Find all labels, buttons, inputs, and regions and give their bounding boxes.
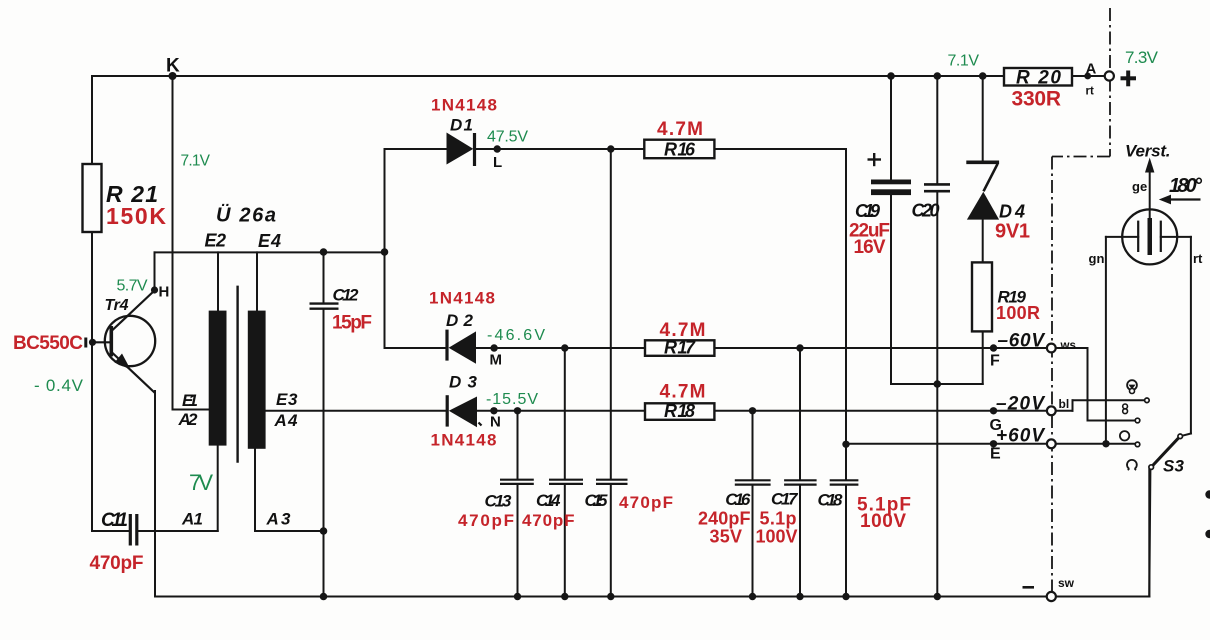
capacitor C19 plus sign <box>868 153 882 166</box>
svg-text:150K: 150K <box>106 203 166 229</box>
wire E1 A2 tap <box>173 409 209 411</box>
svg-text:rt: rt <box>1193 251 1203 266</box>
svg-text:E2: E2 <box>205 231 227 251</box>
transformer winding E3 A4 right bar <box>248 311 266 449</box>
ground bus junction <box>934 380 942 388</box>
wire C20 bottom through ground bus <box>936 193 938 597</box>
wire R21 to C11 <box>91 232 93 531</box>
switch contact 1 <box>1145 398 1150 403</box>
wire tube gn lead <box>1106 236 1138 238</box>
wire R19 to ground bus <box>982 331 984 384</box>
right edge dot 1 <box>1205 490 1210 498</box>
capacitor C16 plates <box>735 480 771 484</box>
resistor R16 <box>644 140 714 159</box>
wire C13 bottom <box>517 485 519 597</box>
svg-text:240pF: 240pF <box>698 509 751 529</box>
capacitor C11 plates <box>130 514 137 546</box>
wire C13 top <box>517 411 519 479</box>
svg-text:F: F <box>990 353 1000 370</box>
wire R16 output vertical to E row <box>845 149 847 444</box>
rail C13 junction <box>514 593 521 600</box>
svg-text:E: E <box>990 446 1001 463</box>
transformer winding E1 A2 left bar <box>209 311 227 446</box>
svg-text:BC550C: BC550C <box>13 333 83 354</box>
wire bl to contact1 <box>1073 399 1145 401</box>
svg-text:7V: 7V <box>189 470 213 495</box>
node M dot <box>490 344 497 351</box>
diode D2 <box>445 330 448 361</box>
svg-text:A1: A1 <box>181 510 203 529</box>
capacitor C12 plates <box>310 304 339 309</box>
icon phono small circle <box>1130 389 1135 394</box>
wire R17 to F <box>714 347 1046 349</box>
terminal +60V circle <box>1047 439 1056 448</box>
rail C17 junction <box>796 593 803 600</box>
node E dot <box>990 440 997 447</box>
wire E row <box>846 443 1047 445</box>
D4 top rail junction <box>979 72 987 80</box>
svg-text:15pF: 15pF <box>332 313 372 334</box>
svg-text:-15.5V: -15.5V <box>486 391 538 408</box>
svg-text:100R: 100R <box>996 303 1040 323</box>
svg-text:D 2: D 2 <box>446 311 474 330</box>
svg-text:C16: C16 <box>725 490 751 509</box>
svg-text:Verst.: Verst. <box>1125 142 1171 161</box>
wire H row to bus <box>155 251 385 253</box>
svg-text:R 18: R 18 <box>664 401 695 421</box>
wire C12 bottom vertical <box>323 310 325 597</box>
wire K vertical <box>172 76 174 410</box>
transformer core <box>236 286 238 463</box>
wire C14 bottom <box>564 485 566 597</box>
svg-text:330R: 330R <box>1012 88 1062 111</box>
svg-text:A2: A2 <box>178 410 199 429</box>
icon mic arc <box>1127 460 1137 469</box>
svg-text:470pF: 470pF <box>619 493 673 512</box>
svg-text:100V: 100V <box>756 527 798 547</box>
wire C11 left lead <box>92 530 129 532</box>
svg-text:E4: E4 <box>258 231 281 251</box>
node N dot <box>490 407 497 414</box>
svg-text:A3: A3 <box>266 510 292 529</box>
wire ws to switch <box>1056 347 1088 349</box>
diode D1 <box>447 133 474 165</box>
switch contact 3 <box>1135 442 1140 447</box>
wire E4 lead <box>256 252 258 310</box>
svg-text:C14: C14 <box>536 491 561 510</box>
wire A3 to C12 line <box>255 530 324 532</box>
resistor R21 <box>83 164 102 232</box>
svg-text:100V: 100V <box>860 511 906 532</box>
capacitor C13 plates <box>500 480 534 484</box>
wire top rail right of R20 <box>1072 75 1105 77</box>
wire emitter vertical <box>154 391 156 597</box>
dash-dot boundary top vertical <box>1052 8 1110 592</box>
wire bottom rail right of sw <box>1056 596 1150 598</box>
svg-text:470pF: 470pF <box>522 511 575 530</box>
terminal ws circle <box>1047 344 1056 353</box>
capacitor C14 plates <box>549 480 583 484</box>
wire A1 lead vertical <box>217 446 219 531</box>
wire left drop to R21 <box>91 76 93 164</box>
icon phono wedge <box>1129 385 1136 390</box>
svg-text:A4: A4 <box>274 411 299 430</box>
wire E2 lead <box>217 252 219 310</box>
icon tape circles <box>1123 404 1128 409</box>
svg-text:7.3V: 7.3V <box>1125 48 1159 67</box>
svg-text:C12: C12 <box>333 286 360 305</box>
Verst arrowhead <box>1145 158 1154 173</box>
wire C18 bottom <box>845 486 847 597</box>
wire ground bus <box>891 383 983 385</box>
wire C18 top <box>845 444 847 479</box>
wire E row right of circle <box>1056 443 1136 445</box>
svg-text:R 20: R 20 <box>1016 68 1061 89</box>
node L dot <box>494 145 501 152</box>
C14 junction <box>561 344 568 351</box>
resistor R18 <box>645 403 714 420</box>
switch S3 pivot contact <box>1178 434 1183 439</box>
C18 E row junction <box>842 441 849 448</box>
wire bus to D2 cathode <box>385 347 447 349</box>
wire D3 anode to R18 <box>478 410 646 412</box>
node A dot <box>1084 73 1091 80</box>
dash-dot boundary horizontal <box>1052 156 1110 158</box>
capacitor C17 plates <box>784 480 817 484</box>
terminal A circle <box>1105 71 1114 80</box>
wire C11 right lead to A1 <box>139 530 218 532</box>
svg-text:ge: ge <box>1132 179 1147 194</box>
svg-text:5.7V: 5.7V <box>117 278 148 295</box>
C17 junction <box>796 344 803 351</box>
svg-text:K: K <box>166 56 180 77</box>
minus sign at sw <box>1023 586 1035 589</box>
wire to S3 pivot <box>1182 434 1191 436</box>
wire H to top <box>154 252 156 290</box>
wire C19 top <box>890 76 892 179</box>
180 degree arrowhead <box>1159 195 1171 205</box>
svg-text:C15: C15 <box>585 491 609 510</box>
svg-text:C18: C18 <box>818 491 844 510</box>
svg-text:35V: 35V <box>710 527 743 547</box>
svg-text:1N4148: 1N4148 <box>429 289 495 308</box>
capacitor C18 plates <box>830 480 859 484</box>
C19 top rail junction <box>887 72 895 80</box>
transistor Tr4 collector lead <box>112 291 155 331</box>
node G dot <box>990 407 997 414</box>
resistor R19 <box>972 262 992 331</box>
switch contact 2 <box>1135 418 1140 423</box>
wire rectifier bus <box>384 149 386 348</box>
wire C17 top <box>799 348 801 479</box>
svg-text:C13: C13 <box>485 492 513 511</box>
plus sign at A terminal <box>1121 71 1137 87</box>
svg-text:H: H <box>159 284 170 301</box>
wire tube rt vertical <box>1190 237 1192 434</box>
svg-text:Tr4: Tr4 <box>105 297 129 314</box>
svg-text:C11: C11 <box>101 510 128 531</box>
svg-text:C17: C17 <box>771 490 799 509</box>
wire D4 top lead <box>982 76 984 161</box>
C16 junction <box>749 407 756 414</box>
svg-text:1N4148: 1N4148 <box>431 96 497 115</box>
svg-text:-46.6V: -46.6V <box>487 327 545 344</box>
wire R16 to right vertical <box>714 148 846 150</box>
svg-text:180°: 180° <box>1169 175 1203 197</box>
svg-text:C20: C20 <box>912 201 940 221</box>
rail C15 junction <box>607 593 614 600</box>
terminal sw circle <box>1047 592 1056 601</box>
wire D4 to R19 <box>982 220 984 263</box>
rail C12 junction <box>320 593 328 601</box>
wire C20 top <box>936 76 938 183</box>
wire bottom rail <box>155 596 1047 598</box>
capacitor C15 plates <box>596 480 628 484</box>
svg-text:7.1V: 7.1V <box>948 53 980 70</box>
stray tick near N <box>479 423 482 426</box>
icon phono circle <box>1127 380 1137 390</box>
svg-text:16V: 16V <box>854 237 886 258</box>
wire C14 top <box>564 348 566 479</box>
wire D1 cathode to R16 <box>476 148 645 150</box>
gn lead E row junction <box>1102 440 1109 447</box>
wire C15 top <box>610 149 612 479</box>
node F dot <box>990 344 997 351</box>
svg-text:D3: D3 <box>449 373 478 392</box>
svg-text:E1: E1 <box>182 391 198 410</box>
resistor R20 <box>1004 68 1072 86</box>
tube center electrode bar <box>1148 218 1153 255</box>
wire ws vertical <box>1087 348 1089 421</box>
C20 top rail junction <box>934 72 942 80</box>
wire C19 bottom <box>890 195 892 384</box>
transistor Tr4 emitter arrow <box>115 354 131 370</box>
wire C16 top <box>752 411 754 479</box>
capacitor C20 plates <box>924 184 950 191</box>
svg-text:D1: D1 <box>450 116 473 135</box>
svg-text:470pF: 470pF <box>90 553 144 574</box>
svg-text:7.1V: 7.1V <box>181 153 211 170</box>
180 degree arrow shaft <box>1164 198 1201 200</box>
rail C18 junction <box>842 593 849 600</box>
wire C17 bottom <box>799 486 801 597</box>
wire tube gn vertical <box>1105 237 1107 444</box>
wire A3 lead vertical <box>254 449 256 531</box>
rail C16 junction <box>749 593 756 600</box>
svg-text:–20V: –20V <box>996 394 1045 415</box>
svg-text:9V1: 9V1 <box>995 221 1030 243</box>
wire S3 to bottom rail <box>1148 470 1150 597</box>
wire D1 anode <box>385 148 447 150</box>
wire bl to jog <box>1056 410 1073 412</box>
svg-text:4.7M: 4.7M <box>657 119 703 140</box>
svg-text:ws: ws <box>1060 340 1076 352</box>
svg-text:–60V: –60V <box>998 331 1046 352</box>
node K dot <box>169 72 177 80</box>
wire top rail left <box>92 75 1004 77</box>
zener diode D4 <box>966 161 999 165</box>
svg-text:Ü 26a: Ü 26a <box>216 204 276 227</box>
svg-text:D4: D4 <box>999 202 1025 222</box>
wire tube rt lead <box>1161 236 1191 238</box>
C13 junction <box>514 407 521 414</box>
transistor Tr4 base lead <box>93 341 110 343</box>
svg-text:- 0.4V: - 0.4V <box>34 376 84 395</box>
wire E3 A4 tap to D3 <box>266 410 446 412</box>
wire bl jog vertical <box>1072 400 1074 411</box>
wire ws to contact2 <box>1088 420 1136 422</box>
bus junction <box>381 248 389 256</box>
svg-text:E3: E3 <box>276 390 298 409</box>
C15 junction <box>607 145 614 152</box>
svg-text:gn: gn <box>1089 251 1105 266</box>
capacitor C19 plates electrolytic <box>871 180 911 185</box>
Verst arrow shaft <box>1149 171 1151 219</box>
svg-text:470pF: 470pF <box>458 511 514 530</box>
svg-text:bl: bl <box>1059 397 1070 411</box>
svg-text:47.5V: 47.5V <box>487 129 528 146</box>
connector tube symbol circle <box>1122 209 1177 264</box>
base node dot <box>89 339 96 346</box>
wire C16 bottom <box>752 486 754 597</box>
svg-text:A: A <box>1086 61 1097 78</box>
node H dot <box>151 286 158 293</box>
C12 top junction <box>320 248 328 256</box>
svg-text:R 16: R 16 <box>664 140 696 160</box>
transistor Q Tr4 circle <box>105 316 155 366</box>
terminal bl circle <box>1047 406 1056 415</box>
svg-text:L: L <box>493 154 502 171</box>
wire S3 lower contact down <box>1149 469 1150 596</box>
svg-text:rt: rt <box>1086 86 1094 98</box>
wire D2 anode to R17 <box>477 347 646 349</box>
icon aux circle <box>1120 431 1129 440</box>
transistor Tr4 emitter lead <box>112 353 155 394</box>
svg-text:C19: C19 <box>855 201 880 221</box>
tube right electrode <box>1160 221 1162 252</box>
resistor R17 <box>645 340 714 356</box>
tube left electrode <box>1137 221 1139 252</box>
diode D3 <box>446 395 449 426</box>
rail C20 junction <box>934 593 941 600</box>
wire C12 top vertical <box>323 252 325 302</box>
transistor Tr4 base bar <box>110 326 114 356</box>
wire R18 to G <box>714 410 1046 412</box>
wire C15 bottom <box>610 485 612 597</box>
svg-text:5.1p: 5.1p <box>760 509 797 529</box>
svg-text:N: N <box>490 414 501 431</box>
svg-text:R 17: R 17 <box>664 338 696 358</box>
S3 arm <box>1153 438 1178 465</box>
rail C14 junction <box>561 593 568 600</box>
dash-dot boundary left vertical <box>1051 157 1053 593</box>
svg-text:1N4148: 1N4148 <box>431 431 497 450</box>
BC550C pointer tick <box>84 338 87 348</box>
svg-text:+60V: +60V <box>996 426 1045 447</box>
switch S3 arm contact <box>1149 465 1154 470</box>
svg-text:M: M <box>490 352 503 369</box>
svg-text:4.7M: 4.7M <box>660 382 706 403</box>
A3 C12 junction <box>320 527 328 535</box>
svg-text:sw: sw <box>1058 576 1075 590</box>
svg-text:S3: S3 <box>1163 457 1185 476</box>
right edge dot 2 <box>1205 530 1210 538</box>
